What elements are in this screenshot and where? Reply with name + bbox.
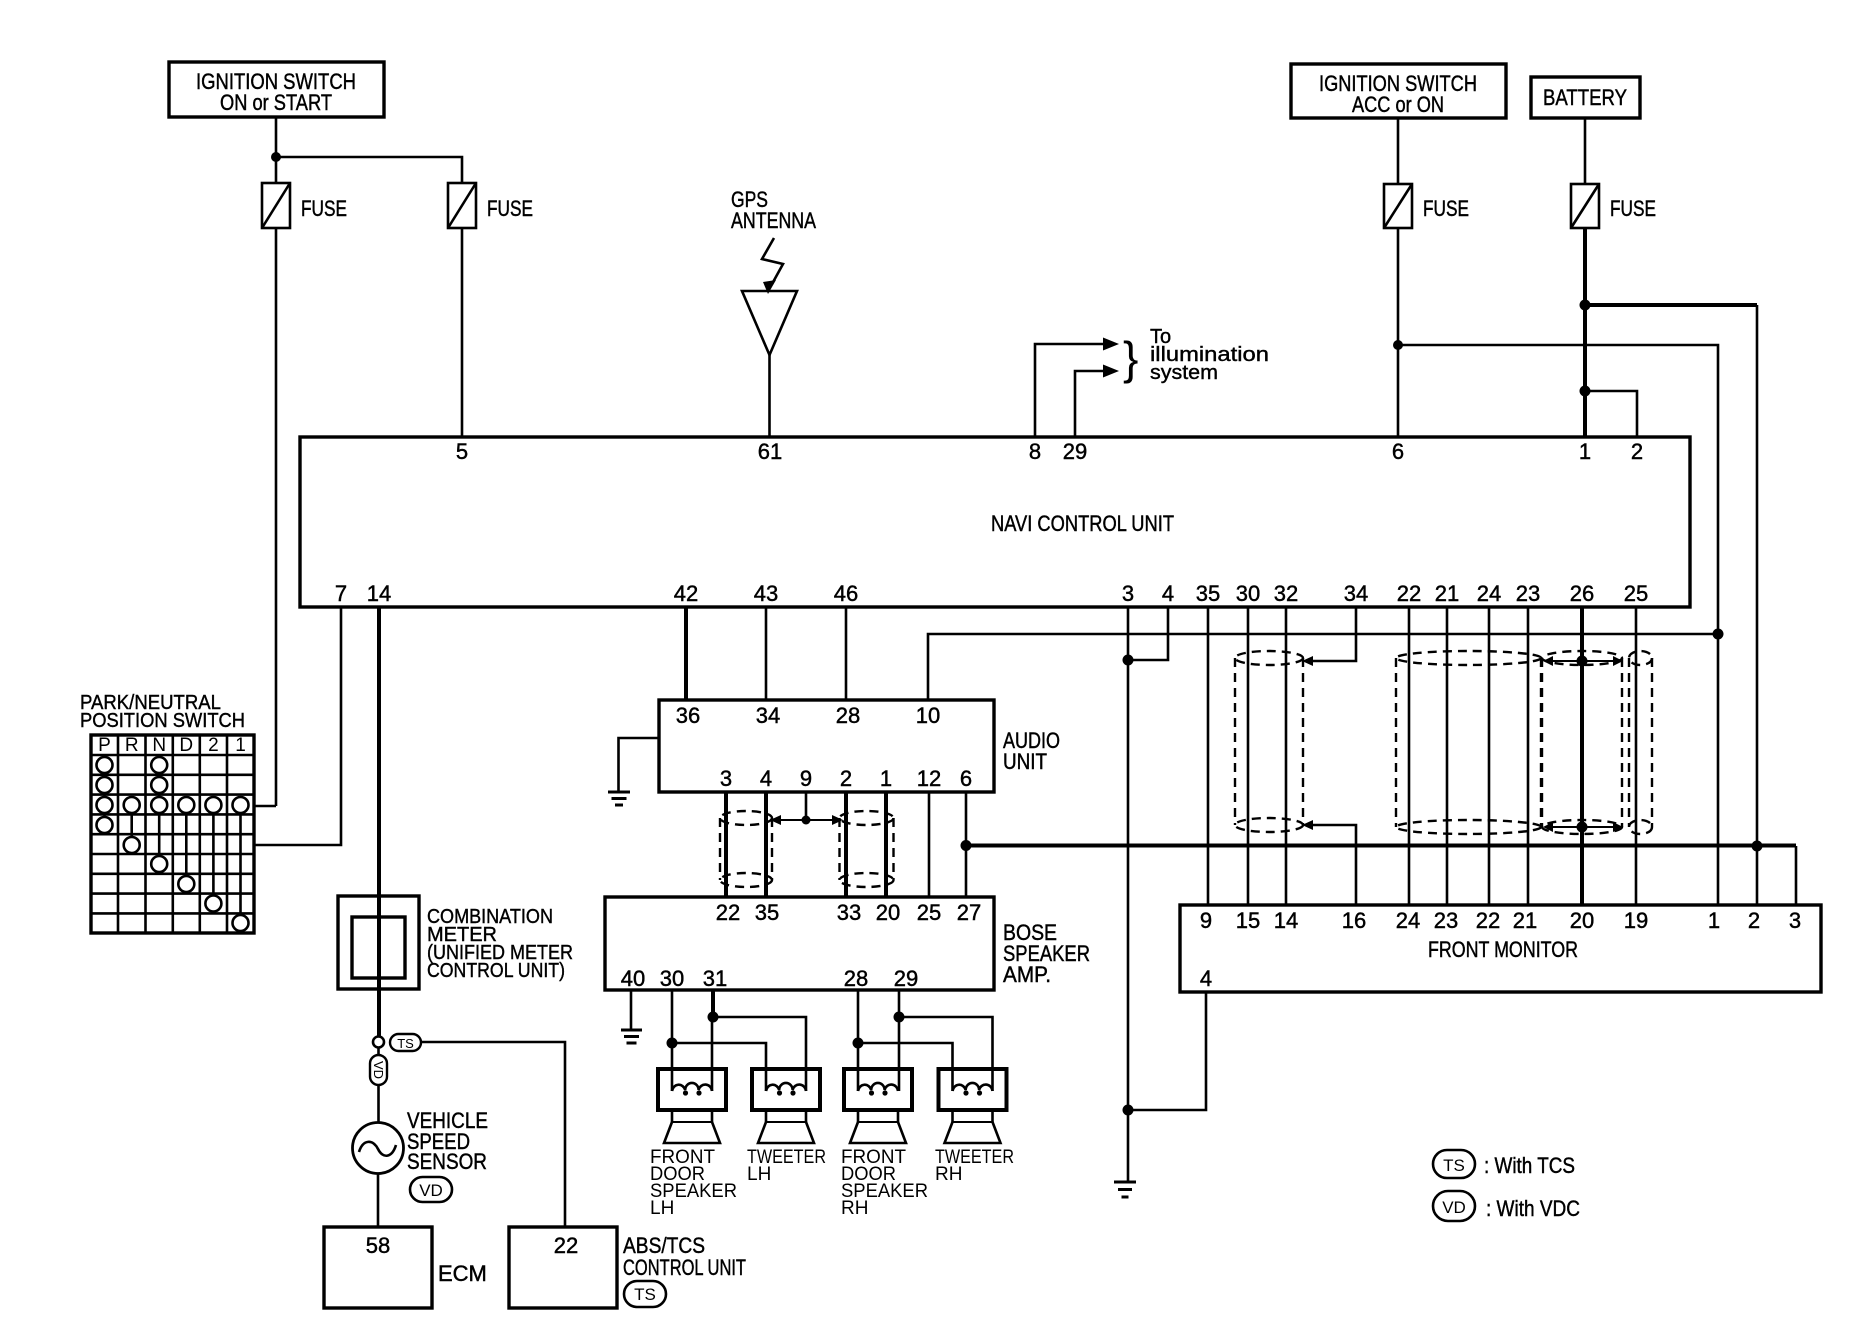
wire navi 35 to monitor 9 — [1207, 607, 1210, 905]
svg-text:42: 42 — [674, 581, 698, 606]
svg-text:: With TCS: : With TCS — [1484, 1153, 1575, 1178]
shielded cable audio right — [840, 811, 894, 887]
svg-text:22: 22 — [554, 1233, 578, 1258]
svg-text:ON or START: ON or START — [220, 90, 332, 115]
svg-text:14: 14 — [1274, 908, 1298, 933]
wire navi 23 to monitor 21 — [1527, 607, 1530, 905]
svg-text:35: 35 — [1196, 581, 1220, 606]
svg-text:3: 3 — [1122, 581, 1134, 606]
svg-text:LH: LH — [650, 1198, 674, 1219]
svg-text:VD: VD — [1442, 1198, 1466, 1217]
navi bottom pin labels — [335, 581, 1648, 606]
svg-text:ACC or ON: ACC or ON — [1352, 92, 1444, 117]
wire switch to fuse F1 line — [254, 805, 276, 808]
node junction dot — [271, 152, 281, 162]
svg-text:19: 19 — [1624, 908, 1648, 933]
wire navi 34 shield connect top — [1307, 607, 1356, 661]
wire audio 3 to bose 22 — [724, 792, 728, 897]
bose ground pin 40 — [621, 990, 642, 1043]
svg-text:31: 31 — [703, 966, 727, 991]
tweeter LH — [752, 1069, 820, 1143]
ABS/TCS control unit box — [509, 1227, 746, 1308]
wire audio 2 to bose 33 — [844, 792, 848, 897]
svg-text:VD: VD — [419, 1181, 443, 1200]
svg-text:P: P — [98, 735, 111, 756]
svg-text:4: 4 — [1200, 966, 1212, 991]
svg-text:4: 4 — [760, 766, 772, 791]
wire audio 4 to bose 35 — [764, 792, 768, 897]
svg-text:2: 2 — [1748, 908, 1760, 933]
node battery line crossing — [1752, 841, 1763, 852]
wire navi 26 to monitor 20 — [1580, 607, 1584, 905]
wire ACC branch to front monitor pin 1 — [1398, 345, 1718, 905]
wire fuse F4 to navi pin 1 — [1583, 228, 1587, 437]
wire navi 21 to monitor 23 — [1446, 607, 1449, 905]
svg-text:33: 33 — [837, 900, 861, 925]
fuse F4 — [1571, 184, 1656, 228]
svg-text:RH: RH — [841, 1198, 868, 1219]
VD oval connector vertical — [370, 1055, 387, 1085]
ignition switch ACC box — [1291, 64, 1506, 118]
svg-text:VD: VD — [371, 1061, 386, 1079]
node on acc feed — [1713, 629, 1724, 640]
wire audio 6 to bose 27 — [965, 792, 968, 897]
svg-text:20: 20 — [1570, 908, 1594, 933]
svg-text:34: 34 — [1344, 581, 1368, 606]
wire navi 42 to audio 36 — [684, 607, 688, 700]
wire fuse F2 to navi pin 5 — [461, 228, 464, 437]
svg-text:7: 7 — [335, 581, 347, 606]
svg-text:22: 22 — [1397, 581, 1421, 606]
wire branch to tweeter LH left — [672, 1043, 766, 1091]
shielded cable monitor 3 — [1542, 651, 1622, 834]
svg-text:29: 29 — [894, 966, 918, 991]
front monitor box — [1180, 905, 1821, 992]
ground monitor — [1114, 1182, 1136, 1197]
wire GPS antenna to navi pin 61 — [768, 355, 771, 437]
svg-text:2: 2 — [1631, 439, 1643, 464]
wire TS to ABS/TCS pin 22 — [421, 1042, 565, 1227]
GPS antenna triangle — [742, 291, 797, 355]
wire battery branch to navi pin 2 — [1585, 391, 1637, 437]
legend TS — [1433, 1150, 1575, 1178]
svg-text:BATTERY: BATTERY — [1543, 85, 1627, 110]
svg-text:CONTROL UNIT: CONTROL UNIT — [623, 1255, 746, 1280]
bose speaker amp box — [605, 897, 1090, 990]
svg-text:2: 2 — [840, 766, 852, 791]
svg-text:40: 40 — [621, 966, 645, 991]
svg-text:28: 28 — [844, 966, 868, 991]
svg-text:46: 46 — [834, 581, 858, 606]
svg-text:TS: TS — [1443, 1156, 1465, 1175]
wire battery branch to front monitor pin 2 — [1585, 303, 1757, 307]
wire navi pin 8 to illumination — [1035, 344, 1103, 437]
navi control unit box — [300, 437, 1690, 607]
front door speaker RH — [844, 1069, 912, 1143]
wire switch to navi pin 7 — [254, 607, 341, 845]
wire bose 30 to front door speaker LH — [671, 990, 674, 1091]
svg-text:9: 9 — [800, 766, 812, 791]
wire fuse F3 to navi pin 6 — [1397, 228, 1400, 437]
svg-text:24: 24 — [1396, 908, 1420, 933]
TS oval under ABS — [624, 1281, 666, 1307]
svg-text:23: 23 — [1516, 581, 1540, 606]
svg-text:TS: TS — [634, 1285, 656, 1304]
shielded cable monitor 3b — [1629, 651, 1652, 834]
wire ignition to junction — [275, 117, 278, 183]
park/neutral position switch grid — [91, 735, 254, 933]
wire navi 4 joins 3 — [1128, 607, 1168, 660]
svg-text:FUSE: FUSE — [301, 196, 347, 221]
wire navi 22 to monitor 24 — [1408, 607, 1411, 905]
svg-text:1: 1 — [235, 735, 246, 756]
svg-text:14: 14 — [367, 581, 391, 606]
legend VD — [1433, 1191, 1580, 1221]
fuse F1 — [262, 183, 347, 228]
wire branch to tweeter LH right — [713, 1017, 806, 1091]
svg-text:58: 58 — [366, 1233, 390, 1258]
monitor top pin labels — [1200, 908, 1801, 933]
svg-text:1: 1 — [1579, 439, 1591, 464]
svg-text:30: 30 — [1236, 581, 1260, 606]
shielded cable monitor 1 — [1235, 651, 1303, 832]
svg-text:LH: LH — [747, 1164, 771, 1185]
svg-text:22: 22 — [1476, 908, 1500, 933]
audio ground — [608, 738, 659, 805]
svg-text:22: 22 — [716, 900, 740, 925]
wire node to sensor — [377, 1048, 380, 1124]
svg-text:21: 21 — [1435, 581, 1459, 606]
svg-text:29: 29 — [1063, 439, 1087, 464]
wire audio 6 branch to monitor pin 3 — [966, 844, 1796, 848]
svg-text:POSITION SWITCH: POSITION SWITCH — [80, 710, 245, 732]
svg-text:CONTROL UNIT): CONTROL UNIT) — [427, 960, 565, 982]
svg-text:RH: RH — [935, 1164, 962, 1185]
wire shield bottom to monitor 16 — [1307, 825, 1356, 905]
svg-text:TS: TS — [397, 1036, 414, 1051]
wire navi 43 to audio 34 — [765, 607, 768, 700]
svg-text:N: N — [152, 735, 166, 756]
shield connect lines cable 3 — [1548, 661, 1618, 827]
fuse F3 — [1384, 184, 1469, 228]
combination meter box — [338, 896, 419, 989]
svg-text:2: 2 — [208, 735, 219, 756]
svg-text:32: 32 — [1274, 581, 1298, 606]
svg-text:34: 34 — [756, 703, 780, 728]
svg-text:1: 1 — [880, 766, 892, 791]
wire audio pin 10 to monitor feed line — [928, 634, 1718, 700]
svg-text:36: 36 — [676, 703, 700, 728]
svg-text:28: 28 — [836, 703, 860, 728]
wire audio 1 to bose 20 — [884, 792, 888, 897]
wire navi 32 to monitor 14 — [1285, 607, 1288, 905]
svg-text:FRONT MONITOR: FRONT MONITOR — [1428, 937, 1578, 962]
VD oval label — [410, 1177, 452, 1202]
wire bose 28 to front door speaker RH — [857, 990, 860, 1091]
audio top pin labels — [676, 703, 940, 728]
svg-text:3: 3 — [1789, 908, 1801, 933]
svg-text:ANTENNA: ANTENNA — [731, 208, 816, 233]
svg-text:FUSE: FUSE — [487, 196, 533, 221]
svg-text:1: 1 — [1708, 908, 1720, 933]
bose bottom pin labels — [621, 966, 918, 991]
svg-text:35: 35 — [755, 900, 779, 925]
wire battery to fuse F4 — [1584, 118, 1587, 184]
svg-text:23: 23 — [1434, 908, 1458, 933]
GPS antenna lightning arrow — [762, 238, 783, 294]
wire navi 30 to monitor 15 — [1247, 607, 1250, 905]
to illumination system label — [1123, 326, 1269, 384]
wire audio 9 shield tap — [805, 792, 808, 820]
combination meter label — [427, 906, 573, 982]
svg-text:25: 25 — [917, 900, 941, 925]
svg-text:12: 12 — [917, 766, 941, 791]
vehicle speed sensor label — [407, 1108, 488, 1174]
GPS antenna label — [731, 187, 816, 233]
svg-text:SENSOR: SENSOR — [407, 1149, 487, 1174]
ECM box — [324, 1227, 487, 1308]
front door speaker LH — [658, 1069, 726, 1143]
svg-text:15: 15 — [1236, 908, 1260, 933]
svg-text:UNIT: UNIT — [1003, 749, 1047, 774]
svg-text:}: } — [1123, 332, 1138, 384]
wire fuse F1 down to park/neutral switch — [275, 228, 278, 806]
svg-text:6: 6 — [1392, 439, 1404, 464]
bose top pin labels — [716, 900, 981, 925]
svg-text:27: 27 — [957, 900, 981, 925]
svg-text:25: 25 — [1624, 581, 1648, 606]
svg-text:6: 6 — [960, 766, 972, 791]
wire navi pin 29 to illumination — [1075, 371, 1103, 437]
wire junction to fuse2 — [276, 157, 462, 183]
wire sensor to ECM pin 58 — [377, 1174, 380, 1228]
wire navi pin 14 down — [377, 607, 381, 1037]
node small circle — [373, 1037, 384, 1048]
svg-text:R: R — [125, 735, 139, 756]
ignition switch ON/START box — [169, 62, 384, 117]
navi top pin labels — [456, 439, 1643, 464]
svg-text:ECM: ECM — [438, 1261, 487, 1286]
svg-text:8: 8 — [1029, 439, 1041, 464]
wire navi 3 down to ground — [1127, 607, 1130, 1182]
svg-text:10: 10 — [916, 703, 940, 728]
TS oval connector — [390, 1034, 421, 1051]
svg-text:21: 21 — [1513, 908, 1537, 933]
speaker labels — [650, 1147, 1014, 1219]
svg-text:system: system — [1150, 362, 1218, 384]
fuse F2 — [448, 183, 533, 228]
vehicle speed sensor — [353, 1123, 404, 1174]
svg-text:26: 26 — [1570, 581, 1594, 606]
audio unit box — [659, 700, 1060, 792]
svg-text:5: 5 — [456, 439, 468, 464]
svg-text:9: 9 — [1200, 908, 1212, 933]
svg-text:AMP.: AMP. — [1003, 962, 1051, 987]
svg-text:24: 24 — [1477, 581, 1501, 606]
shielded cable monitor 2 — [1396, 651, 1541, 834]
wire branch to tweeter RH right — [899, 1017, 993, 1091]
svg-text:30: 30 — [660, 966, 684, 991]
node battery branch lower — [1580, 386, 1591, 397]
node audio 6 branch — [961, 840, 972, 851]
wire ACC to fuse F3 — [1397, 118, 1400, 184]
park/neutral position switch label — [80, 692, 245, 732]
svg-text:FUSE: FUSE — [1423, 196, 1469, 221]
wire branch to tweeter RH left — [858, 1043, 953, 1091]
svg-text:16: 16 — [1342, 908, 1366, 933]
battery box — [1531, 77, 1640, 118]
shielded cable audio left — [720, 811, 772, 887]
svg-text:3: 3 — [720, 766, 732, 791]
node ACC branch — [1393, 340, 1403, 350]
svg-text:61: 61 — [758, 439, 782, 464]
svg-text:FUSE: FUSE — [1610, 196, 1656, 221]
svg-text:4: 4 — [1162, 581, 1174, 606]
tweeter RH — [939, 1069, 1007, 1143]
wire bose 31 to front door speaker LH right — [711, 990, 715, 1017]
audio bottom pin labels — [720, 766, 972, 791]
wire navi 24 to monitor 22 — [1488, 607, 1491, 905]
svg-text:20: 20 — [876, 900, 900, 925]
svg-text:D: D — [179, 735, 193, 756]
svg-text:NAVI CONTROL UNIT: NAVI CONTROL UNIT — [991, 511, 1174, 536]
svg-text:43: 43 — [754, 581, 778, 606]
wire audio 12 to bose 25 — [928, 792, 931, 897]
wire bose 29 to front door speaker RH right — [898, 990, 901, 1091]
wire navi 25 to monitor 19 — [1635, 607, 1638, 905]
svg-text:: With VDC: : With VDC — [1486, 1196, 1580, 1221]
wire navi 46 to audio 28 — [845, 607, 848, 700]
node battery branch upper — [1580, 300, 1591, 311]
wire monitor 4 to ground line — [1128, 992, 1206, 1110]
